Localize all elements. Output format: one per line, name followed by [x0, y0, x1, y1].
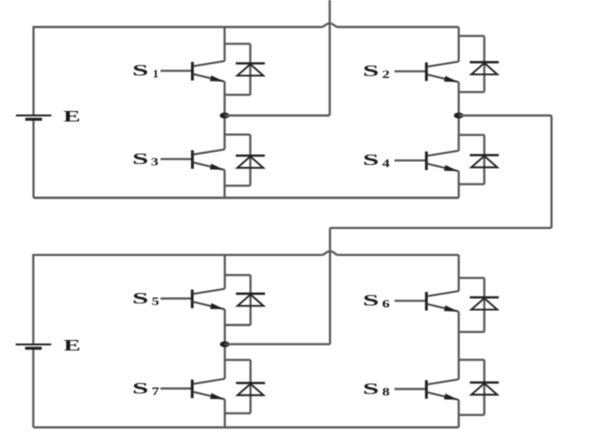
node a (midpoint of S1/S3 leg) [220, 113, 230, 119]
svg-text:1: 1 [153, 66, 159, 80]
svg-text:S: S [132, 380, 148, 397]
svg-text:8: 8 [382, 385, 390, 399]
transistor S8 [395, 379, 459, 400]
wire left trunk of bridge 1 (S1/S3 leg) [224, 27, 226, 198]
label S2 [363, 63, 390, 81]
svg-text:S: S [363, 63, 379, 80]
label S3 [132, 151, 158, 169]
svg-text:6: 6 [382, 296, 390, 310]
label S6 [363, 293, 390, 311]
transistor S4 [395, 151, 459, 172]
diode D2 (antiparallel with S2) [459, 36, 499, 92]
label S8 [363, 381, 390, 399]
wire bottom rail of bridge 2 [33, 426, 458, 428]
svg-text:5: 5 [152, 294, 160, 308]
diode D8 (antiparallel with S8) [459, 360, 499, 415]
diode D7 (antiparallel with S7) [225, 360, 265, 413]
svg-text:S: S [363, 293, 379, 310]
wire from node b to bridge 2 (cascade connection) [330, 116, 552, 345]
transistor S2 [395, 62, 459, 83]
svg-text:S: S [132, 63, 148, 80]
svg-text:E: E [63, 108, 80, 125]
svg-text:E: E [64, 338, 81, 355]
wire left leg of bridge 1 [32, 26, 34, 198]
transistor S3 [161, 149, 225, 170]
wire from node a to phase line [225, 114, 330, 116]
diode D1 (antiparallel with S1) [225, 44, 265, 95]
svg-text:S: S [132, 151, 148, 168]
wire top rail of bridge 2 (with hop at cascade crossing) [33, 251, 458, 255]
wire phase output A going up off-page [329, 0, 331, 116]
wire right trunk of bridge 1 (S2/S4 leg) [458, 27, 460, 198]
diode D6 (antiparallel with S6) [459, 278, 499, 332]
wire from node c to cascade line [225, 343, 330, 345]
svg-text:4: 4 [382, 156, 390, 170]
svg-text:2: 2 [382, 67, 390, 81]
node b (midpoint of S2/S4 leg) [454, 113, 464, 119]
wire bottom rail of bridge 1 [34, 197, 459, 199]
wire top rail of bridge 1 (with hop at phase crossing) [34, 23, 459, 27]
battery E (bridge 2 DC source) [16, 344, 52, 348]
svg-text:7: 7 [152, 384, 160, 398]
diode D5 (antiparallel with S5) [225, 275, 265, 325]
label S5 [132, 290, 159, 308]
wire left trunk of bridge 2 (S5/S7 leg) [224, 255, 226, 428]
svg-text:S: S [363, 381, 379, 398]
wire right trunk of bridge 2 (S6/S8 leg) [458, 255, 460, 428]
svg-text:S: S [132, 290, 148, 307]
transistor S6 [395, 291, 459, 312]
node c (midpoint of S5/S7 leg) [220, 341, 230, 347]
wire left leg of bridge 2 [32, 254, 34, 428]
transistor S5 [161, 289, 225, 310]
transistor S1 [161, 61, 225, 82]
label S1 [132, 63, 158, 81]
label S7 [132, 380, 159, 398]
diode D4 (antiparallel with S4) [459, 135, 499, 184]
battery E (bridge 1 DC source) [16, 115, 52, 119]
diode D3 (antiparallel with S3) [225, 135, 265, 186]
label S4 [363, 152, 390, 170]
svg-text:S: S [363, 152, 379, 169]
svg-text:3: 3 [151, 155, 159, 169]
transistor S7 [161, 379, 225, 400]
